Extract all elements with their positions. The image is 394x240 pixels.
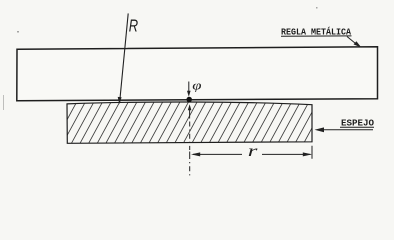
dimension line r with arrowheads [191,146,312,159]
vertical center dash-dot line [189,122,191,177]
label ESPEJO with underline [340,117,374,128]
ruler (regla metálica) body [17,47,378,101]
arrow below contact point [188,104,192,118]
label REGLA METÁLICA with underline [281,26,352,37]
svg-text:R: R [129,17,138,36]
contact point dot [186,97,192,103]
svg-text:ESPEJO: ESPEJO [341,117,374,128]
radius line R [118,13,129,104]
mirror (espejo) hatched body [45,102,326,145]
svg-text:r: r [248,142,259,160]
leader arrow from REGLA METÁLICA to ruler top edge [347,37,362,48]
arrow above contact point [187,82,191,97]
svg-text:φ: φ [192,79,201,93]
leader arrow from ESPEJO to mirror right edge [315,127,374,132]
